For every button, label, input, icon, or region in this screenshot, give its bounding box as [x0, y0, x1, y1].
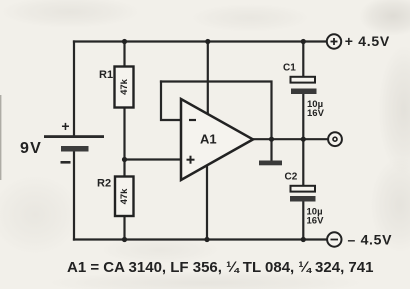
page edge mark left: [0, 95, 1, 180]
svg-text:C2: C2: [285, 172, 298, 183]
node bottom C2: [301, 237, 306, 242]
terminal 0 output: [328, 132, 342, 146]
ground: [259, 161, 282, 166]
wire feedback: [161, 82, 272, 140]
svg-text:+ 4.5V: + 4.5V: [345, 33, 390, 49]
wire output line to C2: [302, 139, 304, 186]
node bottom V-: [204, 237, 209, 242]
wire R2 to bottom rail: [123, 215, 125, 240]
svg-text:16V: 16V: [307, 216, 325, 227]
wire R1 to R2: [123, 107, 125, 177]
wire C1 to output line: [302, 94, 304, 140]
wire V- supply pin: [206, 165, 208, 240]
terminal +4.5V: [327, 33, 390, 49]
node top V+: [205, 39, 210, 44]
node top R1: [122, 39, 127, 44]
op-amp A1: [181, 99, 253, 180]
node output-C junction: [301, 137, 306, 142]
svg-text:A1: A1: [200, 132, 217, 147]
node output-feedback junction: [269, 137, 274, 142]
svg-text:A1 = CA 3140, LF 356, ¼ TL 084: A1 = CA 3140, LF 356, ¼ TL 084, ¼ 324, 7…: [67, 259, 373, 276]
svg-text:R1: R1: [99, 69, 113, 81]
resistor R1: [99, 67, 134, 108]
capacitor C1: [283, 63, 325, 120]
svg-text:C1: C1: [283, 63, 296, 74]
terminal -4.5V: [327, 232, 392, 248]
node top C1: [301, 39, 306, 44]
wire bottom rail: [74, 238, 327, 240]
svg-text:16V: 16V: [307, 108, 325, 119]
wire inverting input: [161, 82, 181, 121]
wire C2 to bottom rail: [302, 201, 304, 240]
svg-text:9 V: 9 V: [20, 140, 41, 157]
battery B1 9V: [20, 118, 104, 164]
wire battery positive riser: [73, 42, 75, 137]
wire R branch upper: [123, 42, 125, 68]
node R1-R2 junction: [122, 157, 127, 162]
wire V+ supply pin: [207, 42, 209, 116]
resistor R2: [97, 177, 134, 217]
svg-text:+: +: [61, 118, 69, 134]
node bottom R2: [122, 237, 127, 242]
capacitor C2: [285, 172, 325, 227]
svg-text:R2: R2: [97, 178, 111, 190]
wire noninverting input: [125, 158, 182, 160]
wire ground stub: [270, 139, 272, 160]
svg-text:47k: 47k: [119, 78, 130, 95]
svg-text:47k: 47k: [119, 188, 130, 205]
svg-text:– 4.5V: – 4.5V: [348, 232, 393, 248]
wire top rail: [74, 40, 327, 42]
wire battery negative drop: [73, 151, 75, 240]
wire C branch top: [302, 42, 304, 78]
wire op-amp output: [252, 138, 327, 140]
